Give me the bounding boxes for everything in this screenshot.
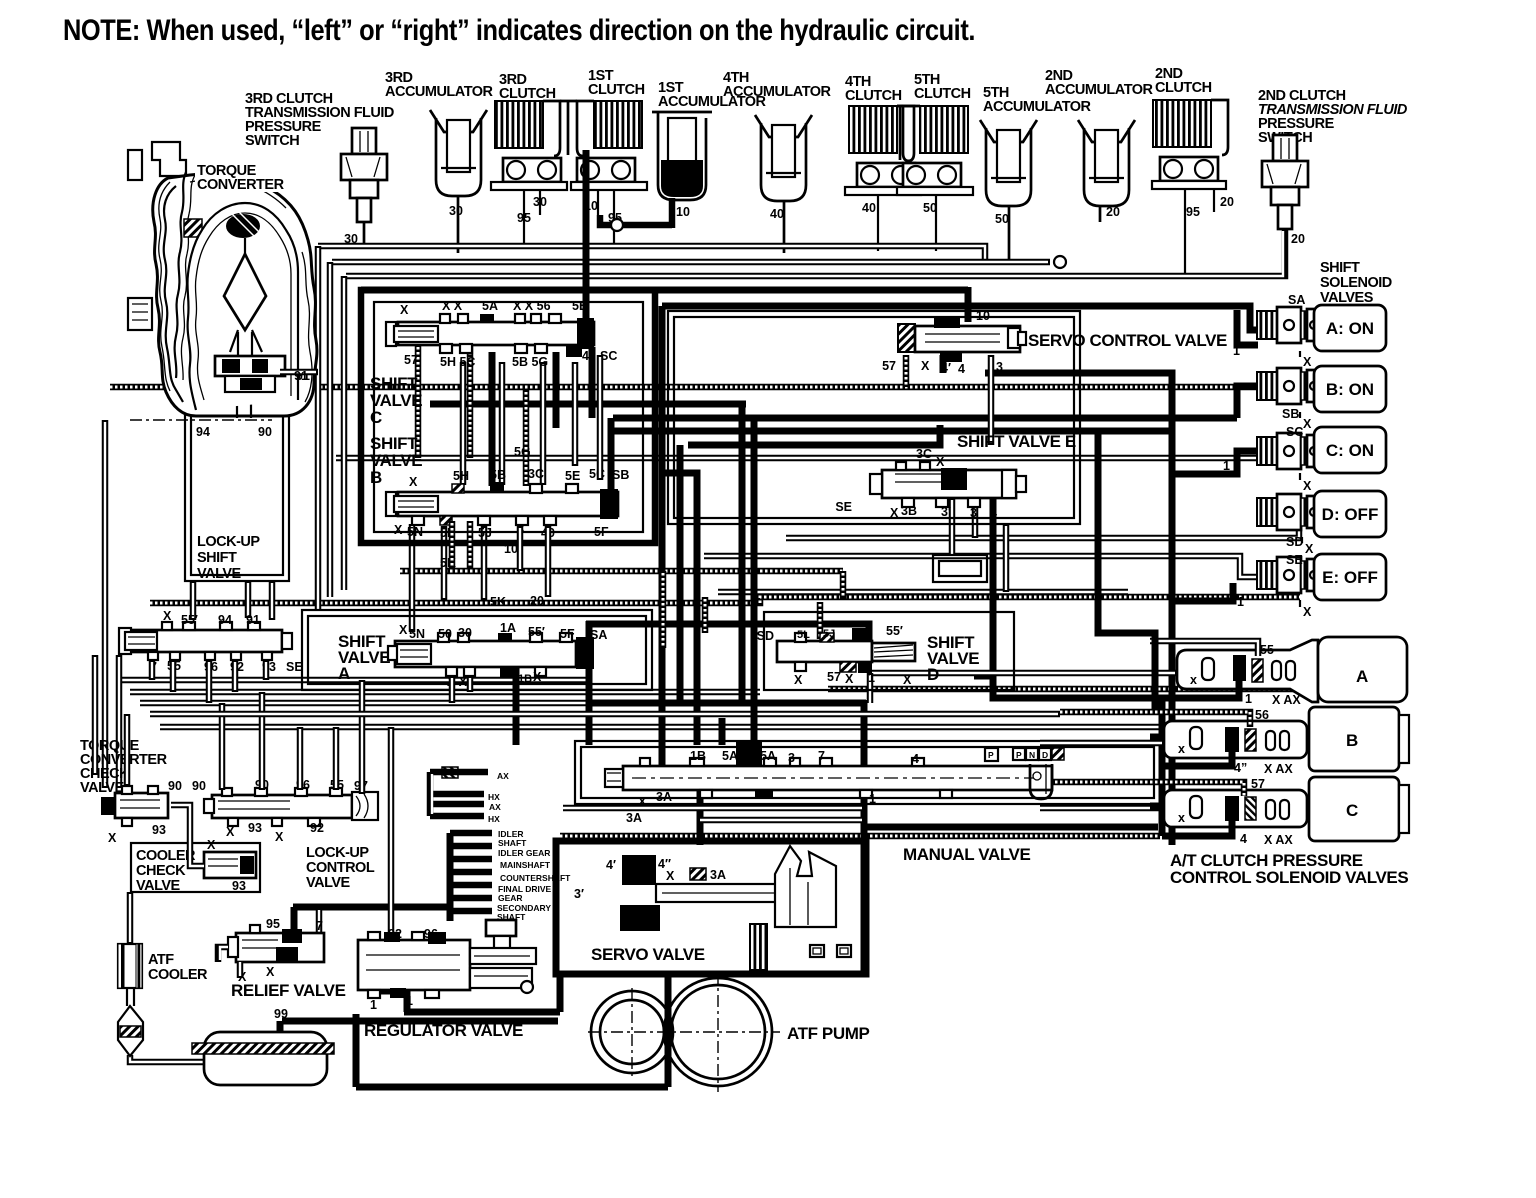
shift valve A spool <box>388 633 594 677</box>
svg-text:SA: SA <box>590 628 607 642</box>
svg-text:20: 20 <box>530 594 544 608</box>
wire hatched h14 <box>400 568 843 575</box>
shift valve D spool <box>777 628 915 673</box>
pressure switch 3rd clutch <box>341 128 387 222</box>
wire thick to solenoid E <box>1172 583 1233 601</box>
svg-text:E: OFF: E: OFF <box>1322 568 1378 587</box>
svg-text:X: X <box>1303 417 1312 431</box>
svg-text:10: 10 <box>676 205 690 219</box>
svg-text:94: 94 <box>218 613 232 627</box>
wire bus h3 <box>346 229 1285 276</box>
svg-text:40: 40 <box>770 207 784 221</box>
ATF strainer tank <box>192 1032 334 1085</box>
wire h12 to SD <box>786 519 1299 538</box>
pump centerlines <box>588 1031 780 1033</box>
svg-text:4: 4 <box>582 349 589 363</box>
wire hatched hv5 <box>840 571 847 600</box>
svg-text:5F: 5F <box>560 627 575 641</box>
junction fitting <box>1054 256 1066 268</box>
svg-text:5H: 5H <box>453 469 469 483</box>
svg-text:96: 96 <box>424 927 438 941</box>
wire 55 into A <box>1150 641 1258 656</box>
svg-text:3C: 3C <box>528 467 544 481</box>
pressure switch 2nd clutch <box>1262 135 1308 229</box>
shift solenoid valve E <box>1257 557 1321 593</box>
svg-text:COUNTERSHAFT: COUNTERSHAFT <box>500 873 571 883</box>
shift solenoid valve A <box>1257 307 1321 343</box>
torque converter <box>128 142 317 418</box>
wire thick v30 99 <box>277 1021 284 1043</box>
svg-text:90: 90 <box>192 779 206 793</box>
svg-text:D: D <box>1042 750 1048 760</box>
wire hatched h27 <box>560 833 1160 840</box>
svg-text:5B 5G: 5B 5G <box>512 355 548 369</box>
wire hatched 56 into B <box>1060 712 1250 727</box>
svg-text:95: 95 <box>1186 205 1200 219</box>
svg-text:50: 50 <box>923 201 937 215</box>
svg-text:3′: 3′ <box>574 887 584 901</box>
svg-text:1: 1 <box>1223 459 1230 473</box>
svg-text:X: X <box>1303 479 1312 493</box>
wire hatched bus h6 <box>110 384 1307 391</box>
svg-text:X: X <box>275 830 284 844</box>
clutch 3RD <box>491 101 567 190</box>
servo valve internals <box>620 846 851 970</box>
svg-text:X: X <box>533 670 542 684</box>
svg-text:55: 55 <box>1260 643 1274 657</box>
wire thick v20 right main <box>985 373 1172 845</box>
svg-text:1A: 1A <box>857 629 871 641</box>
wire thick h32 strainer line <box>282 1018 558 1025</box>
svg-text:5N: 5N <box>409 627 425 641</box>
svg-text:X AX: X AX <box>1264 762 1293 776</box>
wire thick h5 top of E box <box>662 306 1258 330</box>
wire thick v14 <box>861 700 868 974</box>
wire v3 <box>341 276 348 590</box>
svg-text:X: X <box>108 831 117 845</box>
wire thick v36 <box>447 907 454 921</box>
wire v27 <box>116 655 123 788</box>
svg-text:X: X <box>890 506 899 520</box>
svg-text:1A: 1A <box>500 621 516 635</box>
svg-text:1B: 1B <box>518 673 532 685</box>
svg-text:93: 93 <box>232 879 246 893</box>
svg-text:MANUAL VALVE: MANUAL VALVE <box>903 845 1030 864</box>
svg-text:3: 3 <box>970 506 977 520</box>
svg-text:REGULATOR VALVE: REGULATOR VALVE <box>364 1021 523 1040</box>
wire h714 <box>150 711 1060 718</box>
wire thick B unit <box>1162 752 1232 766</box>
accumulator 5TH <box>980 120 1037 206</box>
wire x1006 <box>1003 524 1010 592</box>
svg-text:X: X <box>207 838 216 852</box>
svg-text:57: 57 <box>882 359 896 373</box>
svg-text:X: X <box>409 475 418 489</box>
wire thick x=697 <box>664 473 697 745</box>
svg-text:56: 56 <box>1255 708 1269 722</box>
svg-text:SE: SE <box>286 660 303 674</box>
wire thick h28 <box>866 824 1158 831</box>
svg-text:N: N <box>1029 750 1035 760</box>
svg-text:MAINSHAFT: MAINSHAFT <box>500 860 551 870</box>
svg-text:X: X <box>226 825 235 839</box>
wire thick x586 lower <box>583 244 590 322</box>
wire hatched hv4 <box>817 602 824 639</box>
svg-text:5L: 5L <box>797 629 810 641</box>
wire thick h31 regulator bottom <box>404 1009 560 1016</box>
wire h15 <box>718 589 1128 596</box>
wire 91 to bus <box>280 369 318 376</box>
wire thick drop x680 <box>677 445 684 703</box>
wire h21 thin left <box>140 700 586 707</box>
svg-text:5E: 5E <box>565 469 580 483</box>
wires SVB bottom extra verticals <box>517 526 524 571</box>
A/T solenoid unit C <box>1164 777 1409 841</box>
svg-text:HX: HX <box>488 814 500 824</box>
regulator valve <box>358 920 536 998</box>
clutch 4TH <box>845 106 921 195</box>
svg-text:4: 4 <box>958 362 965 376</box>
svg-text:X: X <box>266 965 275 979</box>
wire thick to solenoid A <box>1237 310 1258 345</box>
svg-text:91: 91 <box>246 613 260 627</box>
wires into A unit <box>870 670 1177 677</box>
solenoid box A: ON <box>1314 305 1386 351</box>
shift solenoid valve C <box>1257 433 1321 469</box>
wires SVC-SVB extra verticals <box>572 362 579 466</box>
svg-text:SHAFT: SHAFT <box>498 838 527 848</box>
wire v28 cooler feed <box>127 892 134 944</box>
svg-text:55′: 55′ <box>886 624 903 638</box>
shift valve C spool <box>386 314 594 357</box>
wire thick v11 <box>719 718 726 745</box>
wire thick h29 <box>293 904 452 911</box>
wire relief left stub <box>218 947 240 978</box>
wires SVB to SVA verticals <box>409 524 416 632</box>
wire thick 5A drop <box>751 418 758 745</box>
wire v31 to regulator <box>388 727 395 941</box>
wire v23 <box>988 355 995 445</box>
wire h13 to SE <box>704 556 1257 577</box>
wires below manual valve <box>563 805 864 812</box>
wires SVE ports down <box>949 498 956 556</box>
svg-text:SB: SB <box>612 468 629 482</box>
svg-text:1: 1 <box>1237 595 1244 609</box>
wire thick v15 pump down <box>665 974 672 1087</box>
svg-text:91: 91 <box>294 369 308 383</box>
wire hatched hv1 <box>415 330 422 458</box>
svg-text:X: X <box>399 623 408 637</box>
wire thick C unit <box>1162 821 1232 836</box>
svg-text:GEAR: GEAR <box>498 893 523 903</box>
relief valve <box>228 925 324 962</box>
svg-text:7: 7 <box>316 919 323 933</box>
svg-text:5A: 5A <box>482 299 498 313</box>
svg-text:SD: SD <box>1286 535 1303 549</box>
wire thick v8 main down <box>659 306 666 790</box>
wires into C unit <box>1040 805 1164 812</box>
svg-text:1B: 1B <box>690 749 706 763</box>
svg-text:3A: 3A <box>710 868 726 882</box>
svg-text:94: 94 <box>196 425 210 439</box>
svg-text:A: ON: A: ON <box>1326 319 1374 338</box>
svg-text:10: 10 <box>504 542 518 556</box>
wire hatched hv3 <box>660 571 667 648</box>
wire main line thick h4 <box>361 287 968 294</box>
svg-text:30: 30 <box>449 204 463 218</box>
accumulator 4TH <box>755 115 812 201</box>
svg-text:D: OFF: D: OFF <box>1322 505 1379 524</box>
svg-text:57: 57 <box>1251 777 1265 791</box>
svg-text:NOTE: When used, “left” or “ri: NOTE: When used, “left” or “right” indic… <box>63 14 975 47</box>
svg-text:X: X <box>394 523 403 537</box>
svg-text:A: A <box>1356 667 1368 686</box>
svg-text:93: 93 <box>152 823 166 837</box>
wire thick v13 <box>697 790 704 845</box>
wire thick h10 <box>688 425 940 445</box>
svg-text:X: X <box>400 303 409 317</box>
wire hatched h16/h17 <box>150 597 1300 603</box>
svg-text:X: X <box>794 673 803 687</box>
svg-text:AX: AX <box>497 771 509 781</box>
wire thick h8 <box>613 415 1237 422</box>
wire thick SVD right <box>974 673 993 680</box>
wire bus h11 <box>336 455 1295 462</box>
node box near shift valve D <box>933 555 987 582</box>
comb spine thick v33 <box>447 833 454 908</box>
wire: thick elbow w fitting <box>600 215 672 225</box>
solenoid box B: ON <box>1314 366 1386 412</box>
wires SVA bottom stubs <box>449 676 456 703</box>
ATF pump small gear <box>591 991 673 1073</box>
svg-text:50: 50 <box>438 627 452 641</box>
wire thick 5G drop <box>553 352 560 428</box>
svg-text:HX: HX <box>488 792 500 802</box>
svg-text:5H 5C: 5H 5C <box>440 355 475 369</box>
clutch 2ND <box>1152 100 1228 189</box>
svg-text:4”: 4” <box>1234 761 1247 775</box>
black port block manual valve <box>736 741 762 765</box>
svg-text:30: 30 <box>458 626 472 640</box>
wires lockup spool bottom stubs <box>149 660 156 680</box>
svg-text:SC: SC <box>1286 425 1303 439</box>
svg-text:55′: 55′ <box>528 625 545 639</box>
svg-text:92: 92 <box>388 927 402 941</box>
wire thick h33 bottom bus <box>356 1084 668 1091</box>
svg-text:P: P <box>1016 750 1022 760</box>
servo valve enclosure thick <box>556 841 866 974</box>
svg-text:55′: 55′ <box>181 613 198 627</box>
node: T channel between clutches <box>560 101 577 155</box>
shift solenoid valve B <box>1257 368 1321 404</box>
svg-text:5J: 5J <box>823 628 835 640</box>
wire thick h18 <box>586 624 869 645</box>
lock-up shift valve spool <box>119 622 292 660</box>
manual valve enclosure <box>575 741 1160 804</box>
wire thick v10 <box>586 621 593 745</box>
svg-text:5N: 5N <box>407 525 423 539</box>
svg-text:X AX: X AX <box>1264 833 1293 847</box>
wire v32 relief 7 <box>316 908 323 946</box>
svg-text:93: 93 <box>248 821 262 835</box>
svg-text:SA: SA <box>1288 293 1305 307</box>
svg-text:C: ON: C: ON <box>1326 441 1374 460</box>
wire thick SC drop <box>589 347 596 418</box>
svg-text:SE: SE <box>1286 553 1303 567</box>
torque converter check valve <box>101 786 168 826</box>
shift valve E spool <box>870 462 1026 507</box>
svg-text:SHIFT VALVE E: SHIFT VALVE E <box>957 432 1076 451</box>
cooler check valve box <box>131 843 260 892</box>
wire hatched drop x705 <box>702 597 709 633</box>
svg-text:X: X <box>1303 355 1312 369</box>
wire hatched h22 <box>828 686 1295 693</box>
wire thick v19 <box>371 966 404 991</box>
wires SVC to SVB verticals <box>460 362 467 485</box>
wire h24 <box>160 724 1160 731</box>
cooler check valve <box>204 852 256 878</box>
wires hatched below SVB <box>449 521 456 568</box>
wire thick v7 to servo control valve <box>965 287 972 322</box>
wire thick v18 <box>404 966 411 1012</box>
accumulator 2ND <box>1078 120 1135 206</box>
lock-up control valve spool <box>204 788 378 826</box>
wire: 4th accumulator down <box>783 201 786 253</box>
wire thick v37 relief feed <box>291 907 298 932</box>
wire: 3rd clutch ports <box>523 190 525 246</box>
svg-text:SE: SE <box>835 500 852 514</box>
wire thick x=611 <box>608 418 615 497</box>
manual valve PRND2 indicator <box>985 748 1064 799</box>
wire h20 <box>130 689 760 696</box>
clutch 1ST <box>571 101 647 190</box>
svg-text:3: 3 <box>788 751 795 765</box>
svg-text:1: 1 <box>1245 692 1252 706</box>
svg-text:50: 50 <box>995 212 1009 226</box>
svg-text:SERVO VALVE: SERVO VALVE <box>591 945 705 964</box>
wire thick v9 <box>739 404 746 700</box>
A/T solenoid unit B <box>1164 707 1409 771</box>
hatched junction box <box>442 767 458 778</box>
wire: 3rd accumulator down <box>457 196 460 253</box>
svg-text:1: 1 <box>869 792 876 806</box>
svg-text:90: 90 <box>258 425 272 439</box>
wire: 3rd switch down to bus <box>363 222 366 246</box>
lock-up shift valve box <box>185 405 289 581</box>
svg-text:3′: 3′ <box>941 505 951 519</box>
svg-text:x: x <box>1178 742 1185 756</box>
wire thick 55 drop to units <box>1098 431 1155 710</box>
svg-text:4′: 4′ <box>941 361 951 375</box>
svg-text:5J: 5J <box>478 526 492 540</box>
comb bars <box>450 833 492 911</box>
svg-text:99: 99 <box>274 1007 288 1021</box>
wire thick v16 <box>557 974 564 1012</box>
wire v34 lockup box to spool <box>190 581 197 620</box>
wire thick v17 <box>353 1014 360 1087</box>
svg-text:X X: X X <box>442 299 463 313</box>
svg-text:3C: 3C <box>916 447 932 461</box>
shift valve C/B enclosure <box>361 290 655 543</box>
svg-text:20: 20 <box>1291 232 1305 246</box>
svg-text:SERVO CONTROL VALVE: SERVO CONTROL VALVE <box>1028 331 1227 350</box>
svg-text:1: 1 <box>1233 344 1240 358</box>
wires lockup control top stubs <box>219 703 226 790</box>
svg-text:X: X <box>666 869 675 883</box>
gear feed wires <box>460 769 488 776</box>
svg-text:SHAFT: SHAFT <box>497 912 526 922</box>
svg-text:X: X <box>921 359 930 373</box>
svg-text:4: 4 <box>1240 832 1247 846</box>
accumulator 3RD <box>430 110 487 196</box>
accumulator 1ST (charged) <box>652 112 712 200</box>
svg-text:B: ON: B: ON <box>1326 380 1374 399</box>
wire TC check top stub <box>124 714 131 786</box>
svg-text:3A: 3A <box>656 790 672 804</box>
svg-text:IDLER GEAR: IDLER GEAR <box>498 848 550 858</box>
svg-text:X: X <box>1305 542 1314 556</box>
shift solenoid valve D <box>1257 494 1321 530</box>
svg-text:7: 7 <box>818 749 825 763</box>
svg-text:X AX: X AX <box>1272 693 1301 707</box>
svg-text:40: 40 <box>862 201 876 215</box>
wire thick v22 <box>940 355 947 373</box>
manual valve spool <box>605 758 1052 799</box>
svg-text:3: 3 <box>996 360 1003 374</box>
wire thick h9 <box>613 428 1172 435</box>
svg-text:X: X <box>845 672 854 686</box>
svg-text:1: 1 <box>406 994 413 1008</box>
svg-text:20: 20 <box>1106 205 1120 219</box>
svg-text:95: 95 <box>266 917 280 931</box>
svg-text:SD: SD <box>757 629 774 643</box>
servo control valve spool <box>898 318 1026 362</box>
svg-text:57: 57 <box>827 670 841 684</box>
wire: 1st accumulator thick down <box>669 198 676 228</box>
wire thick v12 <box>513 667 520 745</box>
svg-text:4′: 4′ <box>606 858 616 872</box>
svg-text:4: 4 <box>912 752 919 766</box>
wire v2 <box>327 262 334 597</box>
svg-text:30: 30 <box>533 195 547 209</box>
svg-text:P: P <box>988 750 994 760</box>
svg-text:4: 4 <box>990 506 997 520</box>
wire h19 <box>120 677 586 684</box>
wire: 1st clutch ports <box>597 190 599 215</box>
wire hatched x526 <box>523 390 530 486</box>
shift valve B spool <box>386 482 618 525</box>
wire thick h7 <box>430 401 746 408</box>
A/T solenoid unit A <box>1177 637 1407 702</box>
re-draw torque converter label <box>195 162 287 192</box>
svg-text:10: 10 <box>976 309 990 323</box>
wire hatched v24 <box>903 355 910 387</box>
svg-text:X X 56: X X 56 <box>513 299 551 313</box>
svg-text:20: 20 <box>1220 195 1234 209</box>
svg-text:3B: 3B <box>901 504 917 518</box>
clutch 5TH <box>897 106 973 195</box>
svg-text:B: B <box>1346 731 1358 750</box>
wire hatched hv2 <box>467 345 474 458</box>
wire bus h1 <box>318 246 985 262</box>
ATF strainer funnel <box>118 988 143 1056</box>
svg-text:5A: 5A <box>722 749 738 763</box>
svg-text:5K: 5K <box>490 595 506 609</box>
svg-text:AX: AX <box>489 802 501 812</box>
wire bus h2 <box>332 259 1050 266</box>
wire thick SVE right down <box>993 498 1150 698</box>
svg-text:5A: 5A <box>760 749 776 763</box>
